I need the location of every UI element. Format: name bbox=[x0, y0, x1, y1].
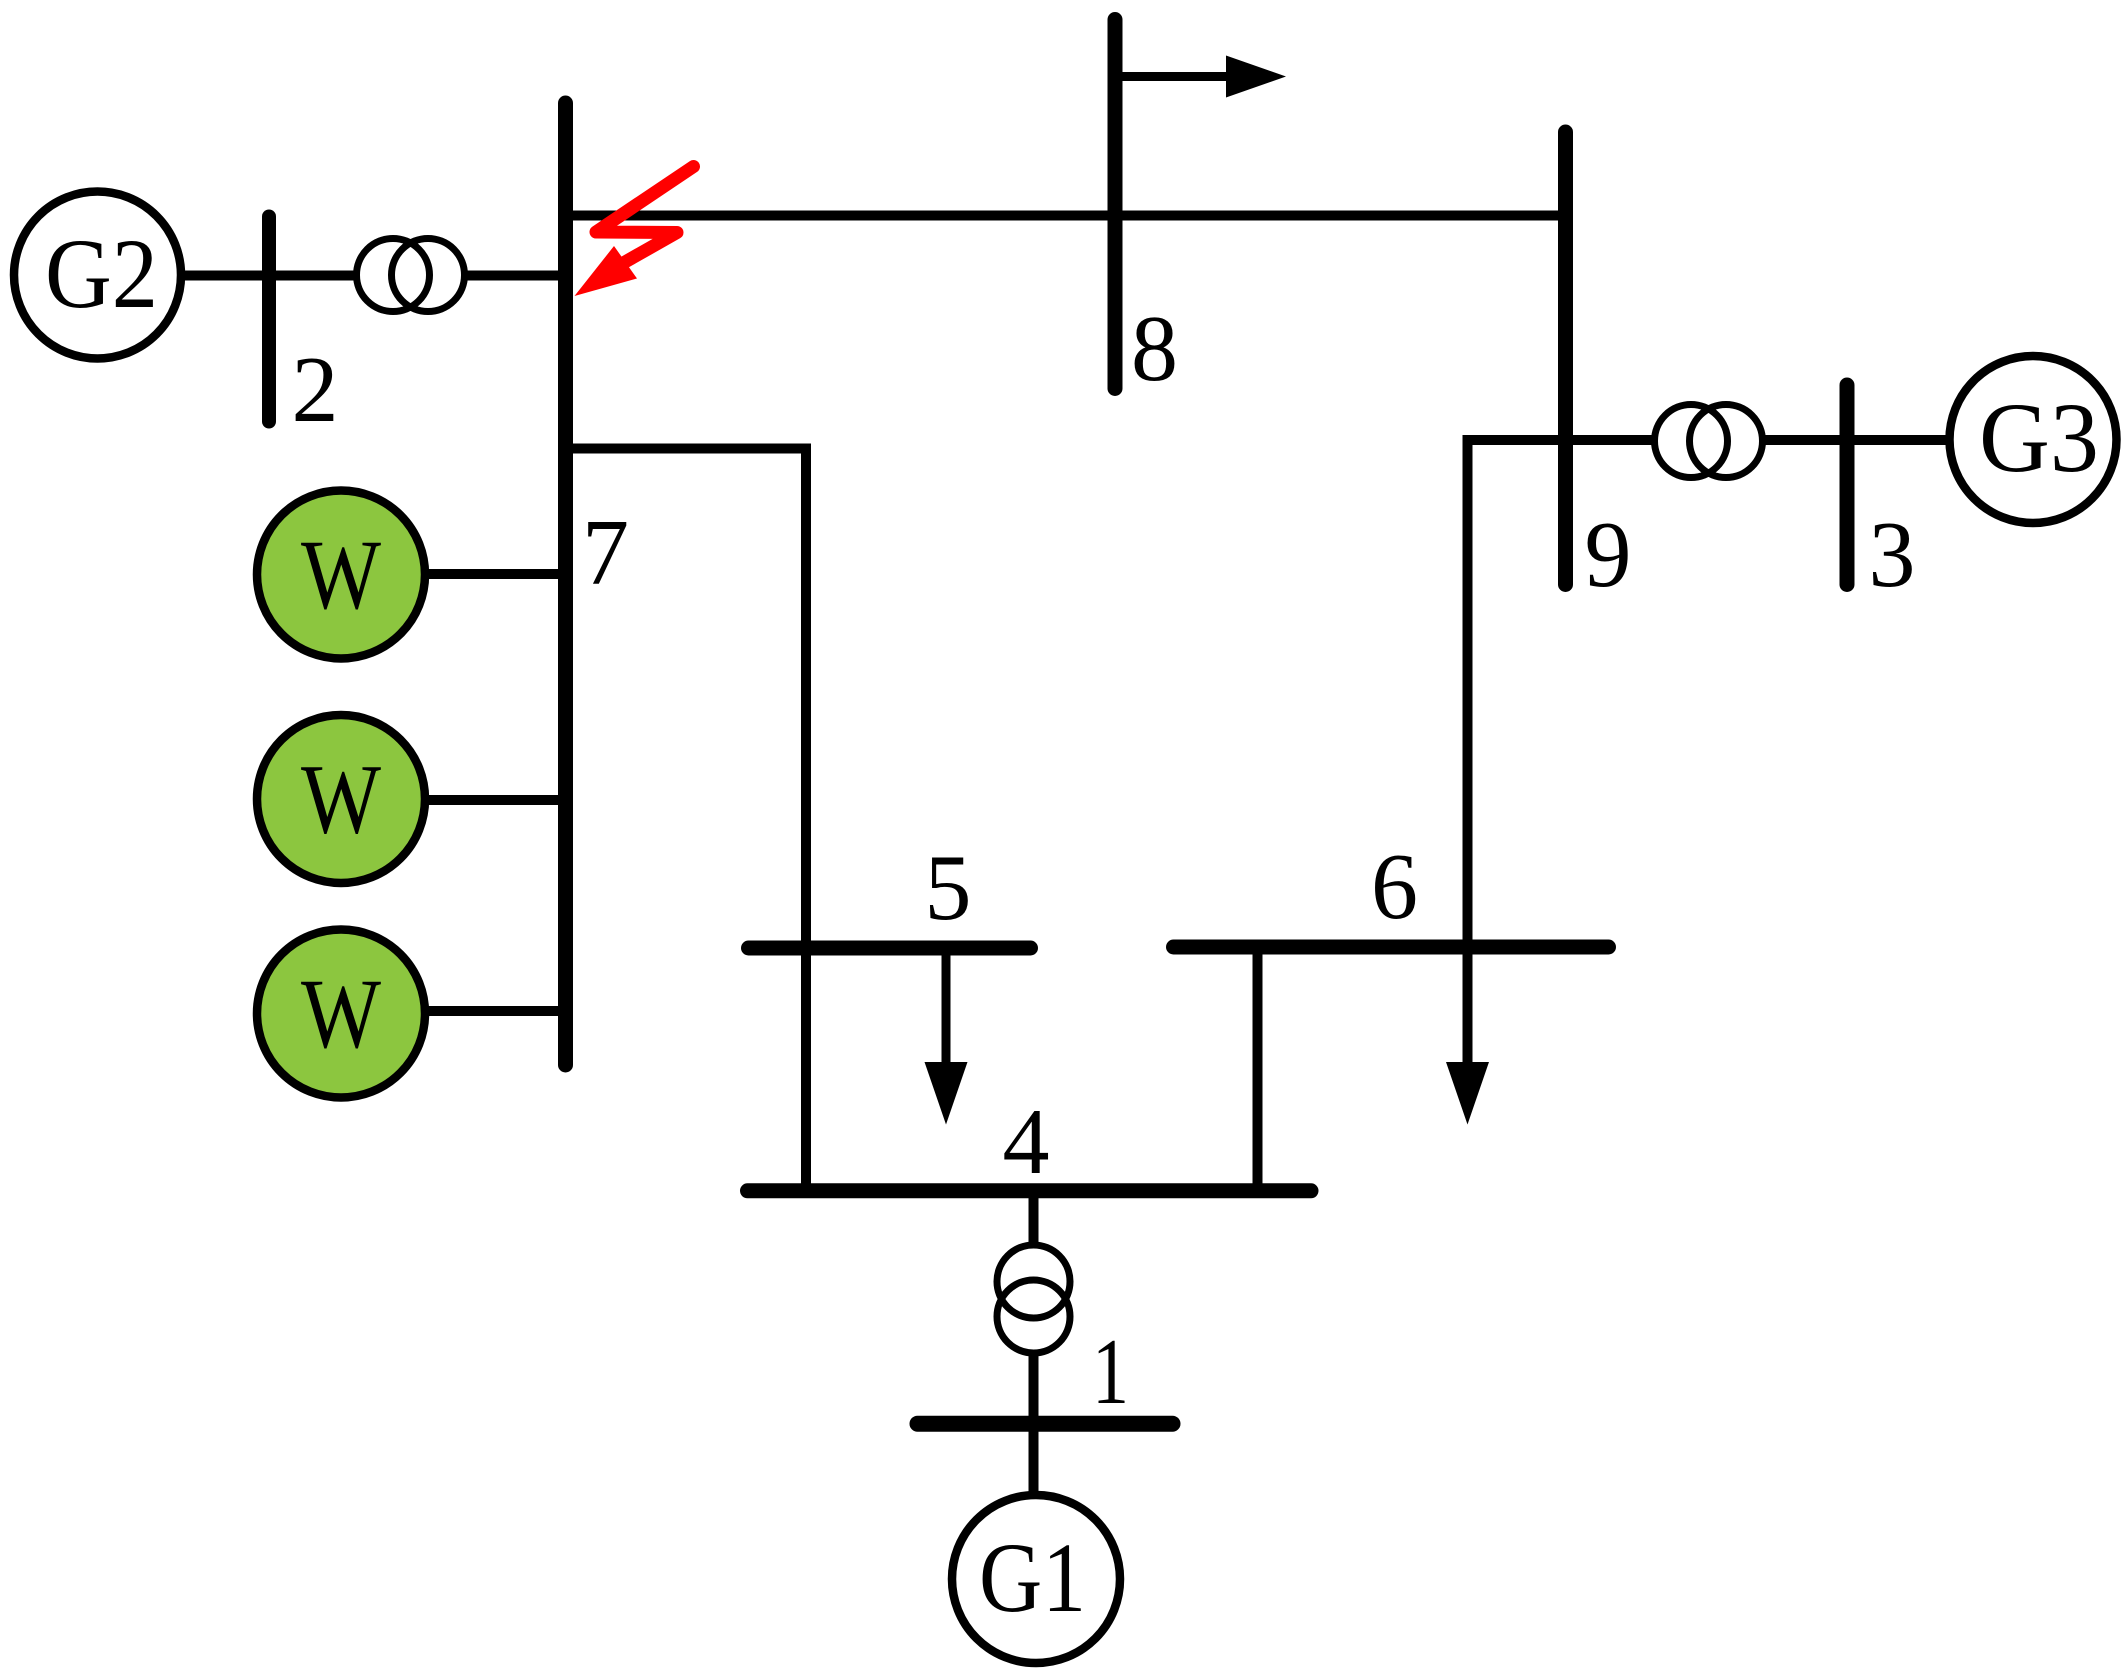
wire W2 to bus 7 bbox=[341, 795, 566, 805]
wire bus6 to bus4 bbox=[1253, 947, 1263, 1191]
bus 4 bbox=[748, 1183, 1312, 1198]
wire W1 to bus 7 bbox=[341, 569, 566, 579]
bus 9 bbox=[1558, 132, 1573, 585]
svg-text:G1: G1 bbox=[979, 1522, 1086, 1633]
wire W3 to bus 7 bbox=[341, 1006, 566, 1016]
svg-text:6: 6 bbox=[1371, 835, 1418, 939]
wire bus4 through T1 and bus1 to G1 bbox=[1029, 1191, 1039, 1580]
wind generator W3 bbox=[257, 930, 425, 1098]
svg-text:3: 3 bbox=[1869, 503, 1916, 607]
generator G3 bbox=[1950, 356, 2117, 523]
wire load at bus 8 bbox=[1115, 72, 1228, 81]
svg-text:9: 9 bbox=[1585, 503, 1632, 607]
wire load arrow at bus 5 bbox=[942, 948, 951, 1063]
svg-text:5: 5 bbox=[925, 836, 972, 940]
svg-text:8: 8 bbox=[1131, 297, 1178, 401]
arrowhead load bus 6 bbox=[1446, 1062, 1489, 1125]
wire bus9 to G3 bbox=[1566, 435, 2033, 445]
svg-text:4: 4 bbox=[1003, 1090, 1050, 1194]
bus 8 bbox=[1108, 20, 1123, 389]
svg-text:W: W bbox=[301, 744, 382, 855]
svg-text:G3: G3 bbox=[1979, 382, 2099, 493]
bus 3 bbox=[1840, 385, 1855, 585]
wire bus7 to bus4 (line 7-5-4) bbox=[566, 449, 806, 1192]
bus 5 bbox=[749, 941, 1031, 956]
svg-text:1: 1 bbox=[1092, 1320, 1129, 1424]
bus 7 bbox=[558, 103, 573, 1065]
generator G2 bbox=[14, 192, 181, 359]
bus 1 bbox=[918, 1416, 1173, 1432]
wind generator W2 bbox=[257, 715, 425, 883]
wind generator W1 bbox=[257, 491, 425, 659]
svg-text:7: 7 bbox=[582, 501, 629, 605]
svg-text:W: W bbox=[301, 958, 382, 1069]
wire G2 to bus 7 bbox=[100, 271, 566, 281]
bus 2 bbox=[262, 217, 276, 422]
svg-text:G2: G2 bbox=[45, 218, 158, 329]
wire line 7-8 (bus7 to bus9 top transmission line) bbox=[566, 211, 1566, 221]
fault lightning arrow at bus 7 bbox=[575, 167, 694, 297]
generator G1 bbox=[952, 1495, 1120, 1663]
wire bus9 to bus6 with load arrow bbox=[1468, 440, 1567, 1063]
svg-text:2: 2 bbox=[292, 338, 339, 442]
transformer T1 (bus4 - bus1) bbox=[997, 1245, 1070, 1353]
svg-text:W: W bbox=[301, 519, 382, 630]
arrowhead load bus 5 bbox=[925, 1062, 968, 1125]
bus 6 bbox=[1174, 940, 1609, 955]
arrowhead load bus 8 bbox=[1226, 56, 1286, 98]
transformer T2 (bus2 - bus7) bbox=[357, 239, 465, 312]
transformer T3 (bus9 - bus3) bbox=[1655, 405, 1763, 478]
